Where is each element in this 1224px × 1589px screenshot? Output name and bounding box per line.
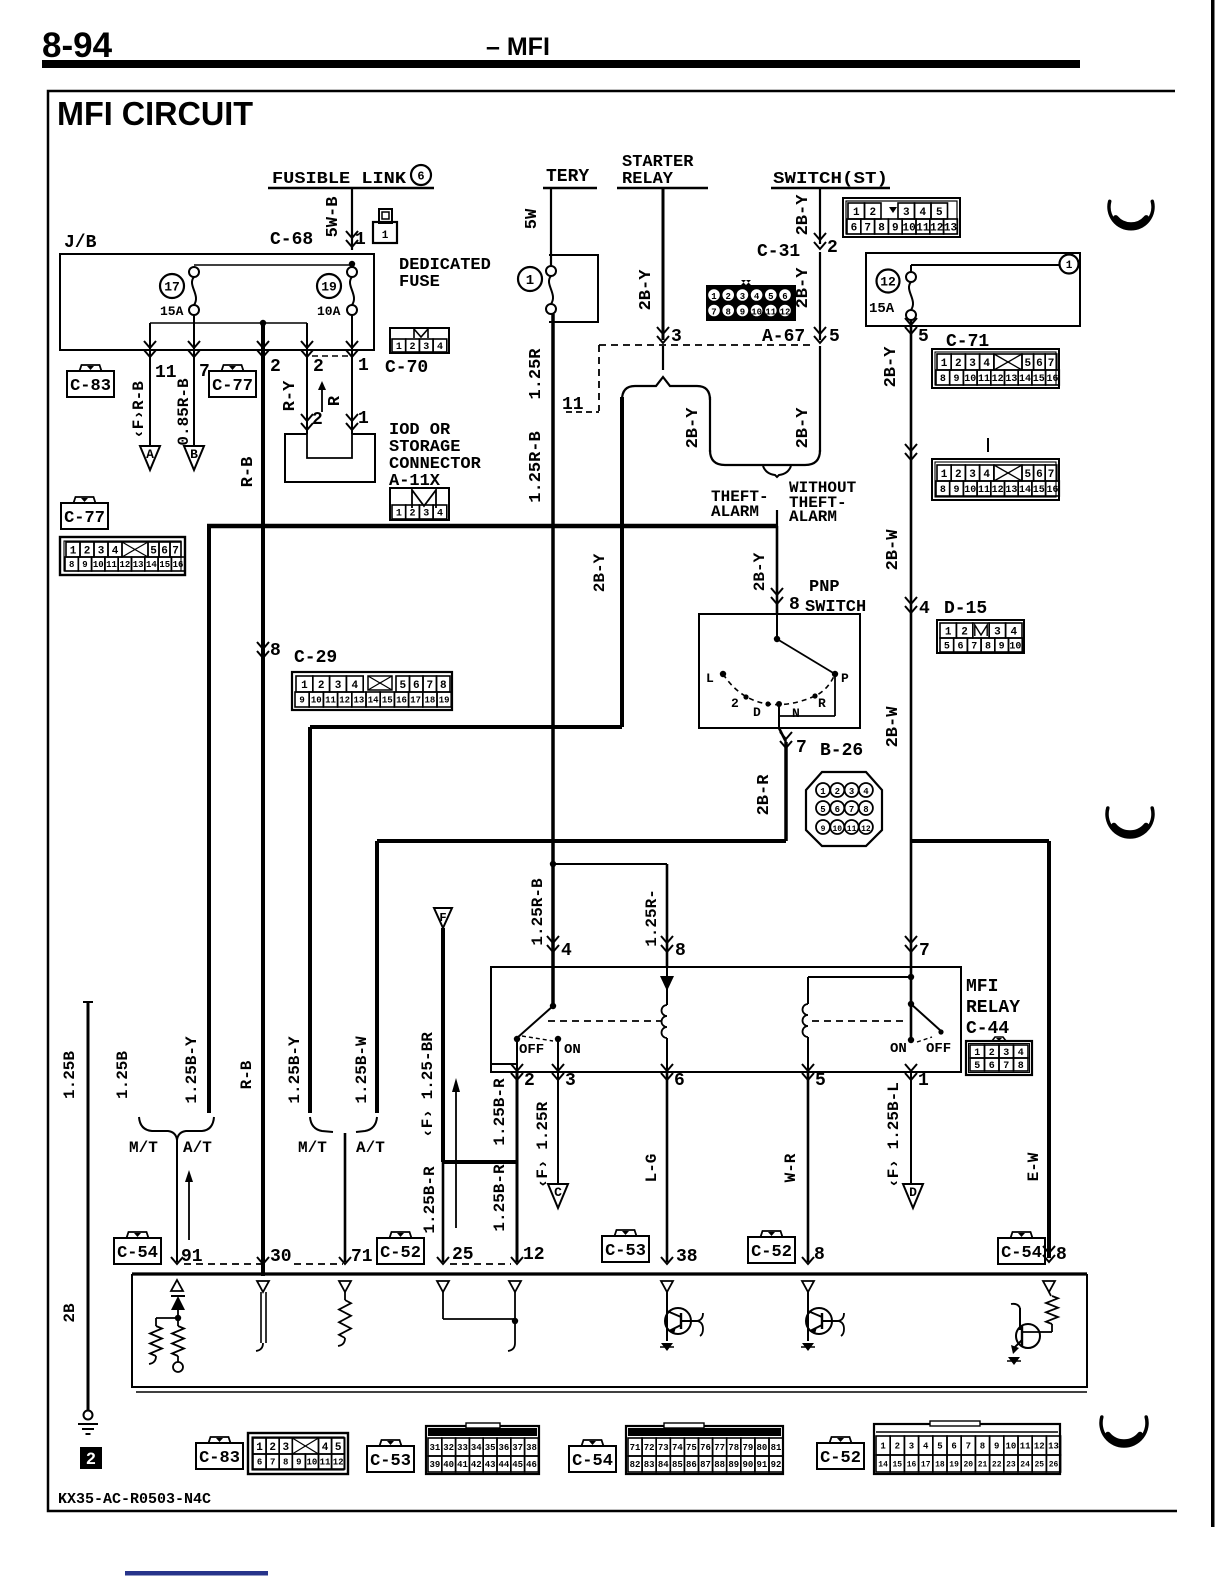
wire 1.25R below fuse [551, 314, 555, 526]
svg-text:MFI: MFI [966, 977, 998, 997]
svg-text:A: A [146, 447, 154, 462]
svg-text:7: 7 [864, 222, 871, 234]
svg-text:A-67: A-67 [762, 327, 805, 347]
connector C-52 label bottom [817, 1443, 864, 1469]
svg-text:77: 77 [714, 1443, 725, 1453]
wire 2B-Y below fuse12 [910, 320, 913, 968]
svg-text:35: 35 [485, 1443, 496, 1453]
svg-text:15: 15 [382, 696, 393, 706]
relay coil1 diode [660, 976, 674, 991]
svg-text:6: 6 [257, 1458, 262, 1468]
arrow 2 out [511, 1073, 523, 1080]
svg-text:5: 5 [399, 680, 406, 692]
relay sw2 wire [910, 968, 913, 1040]
pnp entry wire [776, 614, 778, 639]
wire 5W-B from fusible link [351, 189, 353, 250]
svg-text:C-70: C-70 [385, 358, 428, 378]
svg-text:11: 11 [916, 222, 930, 234]
thick bus wire y841 [377, 839, 786, 843]
svg-text:2: 2 [731, 696, 739, 711]
wire out6 lower [666, 1072, 669, 1262]
svg-text:2B-Y: 2B-Y [794, 407, 813, 449]
svg-text:9: 9 [821, 825, 826, 834]
sensor circle pin91 [177, 1356, 179, 1362]
page marker 2 [80, 1447, 102, 1469]
svg-text:14: 14 [1019, 374, 1031, 385]
svg-text:8: 8 [725, 308, 730, 318]
svg-text:2: 2 [313, 357, 324, 377]
svg-text:15A: 15A [869, 301, 895, 317]
arrow 1 out [905, 1073, 917, 1080]
svg-text:C-53: C-53 [605, 1242, 646, 1261]
svg-text:C: C [554, 1185, 562, 1200]
PNP switch box [699, 614, 860, 728]
svg-text:3: 3 [969, 469, 976, 481]
svg-text:4: 4 [351, 680, 358, 692]
ground symbol [84, 1411, 93, 1420]
svg-text:E-W: E-W [1025, 1152, 1043, 1181]
bracket bottom curve [710, 450, 820, 465]
circled 6 fusible link [411, 165, 431, 185]
svg-text:2B-Y: 2B-Y [591, 553, 609, 592]
svg-text:10: 10 [964, 485, 976, 496]
wire out1 lower [910, 1072, 912, 1183]
svg-text:C-52: C-52 [820, 1449, 861, 1468]
pin 91 chevron [171, 1257, 183, 1264]
svg-text:– MFI: – MFI [486, 33, 550, 61]
arrow mid on 2B-W wire [905, 453, 917, 460]
wire 2B-R to B-26 [779, 728, 786, 742]
svg-text:11: 11 [1020, 1442, 1031, 1452]
svg-text:‹F› 1.25R: ‹F› 1.25R [534, 1101, 552, 1188]
svg-text:30: 30 [270, 1247, 292, 1267]
svg-text:11: 11 [847, 825, 857, 834]
relay sw2 dashed [917, 1037, 932, 1042]
svg-text:0.85R-B: 0.85R-B [175, 378, 193, 446]
svg-text:82: 82 [630, 1460, 641, 1470]
svg-text:KX35-AC-R0503-N4C: KX35-AC-R0503-N4C [58, 1491, 211, 1508]
svg-text:8: 8 [940, 485, 946, 496]
svg-text:5: 5 [829, 327, 840, 347]
svg-text:25: 25 [452, 1245, 474, 1265]
jb arrows [144, 350, 156, 357]
fuse 19 circled [317, 274, 341, 298]
svg-text:2B-Y: 2B-Y [684, 407, 703, 449]
svg-text:10: 10 [751, 308, 762, 318]
svg-text:D: D [753, 705, 761, 720]
svg-text:9: 9 [299, 696, 304, 706]
svg-text:22: 22 [992, 1460, 1002, 1469]
svg-text:1.25R-B: 1.25R-B [529, 878, 547, 946]
connector C-83 label box [67, 371, 114, 397]
svg-text:10: 10 [307, 1458, 318, 1468]
battery tap to coil [553, 863, 667, 865]
svg-text:38: 38 [526, 1443, 537, 1453]
svg-text:14: 14 [878, 1460, 888, 1469]
svg-text:4: 4 [754, 292, 760, 302]
arrow 5 out [802, 1073, 814, 1080]
svg-text:37: 37 [512, 1443, 523, 1453]
ground Q3 [1008, 1357, 1020, 1365]
svg-text:2: 2 [269, 1442, 276, 1454]
svg-text:1.25B-R: 1.25B-R [491, 1164, 509, 1232]
page right edge scan line [1211, 0, 1215, 1527]
wire 5W battery [550, 189, 552, 266]
wire out2 lower [516, 1072, 519, 1262]
connector B-26 hexagonal [806, 772, 882, 846]
arrow 8 EW [1043, 1255, 1055, 1262]
wire 1.25B-Y second drop [308, 727, 312, 1113]
svg-text:7: 7 [971, 642, 977, 653]
arrow up annotation 1 [188, 1180, 190, 1240]
svg-text:2B-Y: 2B-Y [751, 552, 769, 591]
svg-text:20: 20 [963, 1460, 973, 1469]
svg-text:1: 1 [396, 509, 402, 520]
svg-text:14: 14 [146, 560, 157, 570]
svg-text:C-68: C-68 [270, 230, 313, 250]
svg-text:12: 12 [333, 1458, 344, 1468]
svg-text:83: 83 [644, 1460, 655, 1470]
arrow 3 on starter wire [657, 336, 669, 343]
svg-text:1.25B-R: 1.25B-R [491, 1078, 509, 1146]
svg-text:7: 7 [849, 805, 854, 815]
svg-text:B: B [190, 447, 198, 462]
svg-text:5: 5 [974, 1061, 980, 1072]
svg-text:74: 74 [672, 1443, 683, 1453]
transistor Q3 [1051, 1324, 1053, 1332]
svg-text:RELAY: RELAY [622, 170, 674, 189]
svg-text:9: 9 [296, 1458, 301, 1468]
stub pin12 [514, 1292, 516, 1343]
svg-text:46: 46 [526, 1460, 537, 1470]
svg-text:10: 10 [964, 374, 976, 385]
svg-text:1.25B-Y: 1.25B-Y [183, 1036, 201, 1104]
svg-text:ALARM: ALARM [789, 508, 837, 526]
svg-text:6: 6 [851, 222, 858, 234]
svg-text:13: 13 [944, 222, 958, 234]
svg-text:84: 84 [658, 1460, 669, 1470]
svg-text:7: 7 [796, 738, 807, 758]
dot lower bus [260, 320, 266, 326]
wire jb out 2 thick R-B [261, 323, 265, 1276]
wire jb out 11 [149, 323, 151, 365]
svg-text:1.25B-Y: 1.25B-Y [286, 1036, 304, 1104]
svg-text:A/T: A/T [356, 1139, 385, 1157]
svg-text:2: 2 [725, 292, 730, 302]
svg-text:2: 2 [312, 410, 323, 430]
svg-text:7: 7 [426, 680, 433, 692]
svg-text:ON: ON [890, 1041, 907, 1057]
svg-text:2B-Y: 2B-Y [637, 269, 656, 311]
svg-text:2B-Y: 2B-Y [794, 267, 813, 309]
pnp dashed arc [723, 674, 835, 705]
svg-text:5: 5 [150, 545, 157, 557]
svg-text:11: 11 [978, 374, 990, 385]
svg-text:1: 1 [853, 207, 860, 219]
svg-text:12: 12 [861, 825, 871, 834]
punch hole artifact 2 [1107, 808, 1153, 837]
svg-text:4: 4 [863, 787, 869, 797]
starter split bracket [622, 377, 710, 400]
ground Q1 [661, 1343, 673, 1351]
dashed between iod pins [312, 355, 349, 357]
svg-text:76: 76 [700, 1443, 711, 1453]
pin 38 entry triangle [661, 1281, 673, 1292]
svg-text:18: 18 [935, 1460, 945, 1469]
svg-text:2: 2 [524, 1071, 535, 1091]
arrow 4 to D-15 [905, 606, 917, 613]
fuse 19 element [347, 267, 357, 277]
svg-text:23: 23 [1006, 1460, 1016, 1469]
svg-text:9: 9 [954, 374, 960, 385]
pin 71 chevron [339, 1257, 351, 1264]
svg-text:4: 4 [919, 599, 930, 619]
svg-text:3: 3 [909, 1442, 914, 1452]
connector C-52 label box [377, 1238, 424, 1264]
relay coil1 [662, 1005, 668, 1038]
svg-text:D-15: D-15 [944, 599, 987, 619]
resistor pair link [156, 1317, 178, 1319]
pnp P dot [832, 671, 838, 677]
dedicated fuse box [549, 255, 598, 322]
svg-text:10: 10 [1009, 642, 1021, 653]
horizontal to PNP [310, 725, 622, 729]
wire 2B-W tee corner [911, 839, 1049, 843]
svg-text:R-B: R-B [239, 457, 258, 488]
svg-text:11: 11 [562, 395, 584, 415]
svg-text:31: 31 [429, 1443, 440, 1453]
pin 8 EW entry triangle [1043, 1281, 1055, 1292]
svg-text:71: 71 [351, 1247, 373, 1267]
svg-text:17: 17 [164, 280, 180, 295]
svg-text:R-Y: R-Y [281, 380, 300, 411]
svg-text:9: 9 [999, 642, 1005, 653]
svg-text:16: 16 [173, 560, 184, 570]
svg-text:5: 5 [335, 1442, 342, 1454]
pin 12 chevron [511, 1257, 523, 1264]
connector C-29 [292, 672, 452, 710]
svg-text:1.25R-: 1.25R- [643, 889, 661, 947]
svg-text:7: 7 [270, 1458, 275, 1468]
pin 38 chevron [661, 1257, 673, 1264]
svg-text:6: 6 [674, 1071, 685, 1091]
svg-text:5: 5 [820, 805, 825, 815]
svg-text:8: 8 [940, 374, 946, 385]
svg-text:41: 41 [457, 1460, 468, 1470]
svg-text:6: 6 [951, 1442, 956, 1452]
svg-text:2: 2 [955, 469, 962, 481]
connector C-54 bottom [626, 1426, 783, 1474]
connector C-53 bottom [426, 1426, 539, 1474]
svg-text:1.25B-R: 1.25B-R [421, 1166, 439, 1234]
diode pin91 [171, 1296, 185, 1310]
svg-text:12: 12 [780, 308, 791, 318]
mech dashed link 2 [812, 1020, 905, 1022]
svg-text:1: 1 [382, 230, 389, 242]
dot C-68 feed [349, 261, 355, 267]
connector C-53 label bottom [367, 1446, 414, 1472]
svg-text:10: 10 [902, 222, 915, 234]
wire 1.25B-Y left drop [207, 524, 211, 1113]
svg-text:3: 3 [969, 358, 976, 370]
svg-text:10: 10 [1005, 1442, 1016, 1452]
svg-text:9: 9 [82, 560, 87, 570]
svg-text:5: 5 [815, 1071, 826, 1091]
svg-text:1: 1 [1066, 260, 1073, 272]
svg-text:M/T: M/T [129, 1139, 158, 1157]
svg-text:8: 8 [985, 642, 991, 653]
dashed A-67 line [599, 344, 814, 346]
arrow 5 below fuse box [905, 327, 917, 334]
ECM box [132, 1272, 1087, 1275]
relay out2 wire [516, 1039, 518, 1072]
pin 25 entry triangle [437, 1281, 449, 1292]
svg-text:4: 4 [112, 545, 119, 557]
pin 91 entry triangle [171, 1280, 183, 1291]
connector C-83 bottom [248, 1433, 348, 1474]
svg-text:L-G: L-G [643, 1154, 661, 1183]
svg-text:73: 73 [658, 1443, 669, 1453]
svg-text:24: 24 [1020, 1460, 1030, 1469]
svg-text:J/B: J/B [64, 233, 97, 253]
svg-text:TERY: TERY [546, 167, 589, 187]
svg-text:C-52: C-52 [751, 1243, 792, 1262]
svg-text:8: 8 [878, 222, 885, 234]
svg-text:8: 8 [69, 560, 74, 570]
punch hole artifact 3 [1101, 1417, 1147, 1446]
svg-text:1.25B: 1.25B [61, 1051, 79, 1099]
relay sw2 arm [911, 1004, 941, 1031]
svg-text:18: 18 [424, 696, 435, 706]
junction block J/B box [60, 254, 374, 350]
svg-text:21: 21 [978, 1460, 988, 1469]
svg-text:40: 40 [443, 1460, 454, 1470]
connector C-70 [390, 328, 449, 353]
svg-text:91: 91 [757, 1460, 768, 1470]
bottom blue mark [125, 1571, 268, 1576]
svg-text:19: 19 [439, 696, 450, 706]
svg-text:ALARM: ALARM [711, 503, 759, 521]
svg-text:W-R: W-R [782, 1153, 800, 1182]
svg-text:92: 92 [771, 1460, 782, 1470]
arrow 5 on switch wire [814, 336, 826, 343]
svg-text:5: 5 [768, 292, 773, 302]
svg-text:N: N [792, 706, 800, 721]
connector below C-71 16pin [932, 459, 1059, 500]
resistor pin71 [344, 1292, 346, 1300]
svg-text:FUSIBLE LINK: FUSIBLE LINK [272, 170, 407, 189]
svg-text:3: 3 [282, 1442, 289, 1454]
svg-text:1: 1 [918, 1071, 929, 1091]
link 25 to 12 [442, 1292, 444, 1319]
svg-text:79: 79 [742, 1443, 753, 1453]
svg-text:1.25B: 1.25B [114, 1051, 132, 1099]
svg-text:SWITCH(ST): SWITCH(ST) [773, 170, 888, 189]
svg-text:3: 3 [423, 342, 429, 353]
svg-text:86: 86 [686, 1460, 697, 1470]
svg-text:6: 6 [782, 292, 787, 302]
svg-text:7: 7 [966, 1442, 971, 1452]
svg-text:1: 1 [880, 1442, 886, 1452]
svg-text:3: 3 [423, 509, 429, 520]
svg-text:80: 80 [757, 1443, 768, 1453]
svg-text:3: 3 [98, 545, 105, 557]
svg-text:10: 10 [93, 560, 104, 570]
circled 12 fuse [877, 270, 900, 293]
svg-text:6: 6 [835, 805, 840, 815]
relay sw1 off dot [514, 1036, 520, 1042]
arrow into J/B [346, 240, 358, 247]
merged wire MT2 [344, 1133, 347, 1262]
svg-text:6: 6 [1036, 358, 1043, 370]
svg-text:1: 1 [256, 1442, 263, 1454]
ignition fuse box [866, 253, 1080, 326]
mechanical dashed link [548, 1020, 662, 1022]
triangle F source [434, 908, 452, 928]
svg-text:C-44: C-44 [966, 1019, 1009, 1039]
svg-text:11: 11 [325, 696, 336, 706]
svg-text:C-83: C-83 [70, 377, 111, 396]
relay coil2 wire upper [807, 977, 809, 1004]
pin 30 chevron [257, 1257, 269, 1264]
svg-text:4: 4 [561, 941, 572, 961]
svg-text:13: 13 [1005, 374, 1017, 385]
svg-text:R: R [818, 696, 826, 711]
svg-text:1: 1 [358, 409, 369, 429]
relay sw1 wire [551, 526, 555, 1006]
relay coil1 wire lower [666, 1038, 668, 1072]
svg-text:5: 5 [936, 207, 943, 219]
svg-text:3: 3 [849, 787, 854, 797]
svg-text:C-77: C-77 [64, 509, 105, 528]
svg-text:10: 10 [311, 696, 322, 706]
svg-text:6: 6 [417, 169, 424, 183]
svg-text:34: 34 [471, 1443, 482, 1453]
arrow 2 on switch wire [814, 242, 826, 249]
svg-text:38: 38 [676, 1247, 698, 1267]
relay sw1 dashed link [522, 1036, 553, 1041]
svg-text:9: 9 [994, 1442, 999, 1452]
svg-text:15: 15 [892, 1460, 902, 1469]
svg-text:R: R [326, 395, 345, 406]
svg-text:FUSE: FUSE [399, 273, 440, 292]
arrow 7 b26 [780, 741, 792, 748]
svg-text:17: 17 [921, 1460, 931, 1469]
MFI relay box [491, 967, 961, 1072]
dashed harness 91-30 [184, 1263, 261, 1265]
arrow 8 pnp [771, 597, 783, 604]
svg-text:8: 8 [789, 595, 800, 615]
svg-text:2: 2 [84, 545, 91, 557]
underbrace without theft alarm [763, 466, 791, 477]
relay sw2 on dot [908, 1037, 914, 1043]
svg-text:C-54: C-54 [572, 1452, 613, 1471]
svg-text:12: 12 [992, 485, 1004, 496]
pnp moving contact [777, 639, 835, 674]
relay coil2 top link [808, 976, 911, 978]
svg-text:2: 2 [86, 1449, 95, 1468]
svg-text:C-29: C-29 [294, 648, 337, 668]
svg-text:10: 10 [832, 825, 842, 834]
svg-text:2: 2 [410, 509, 416, 520]
connector C-77 label box [61, 503, 108, 529]
svg-text:13: 13 [133, 560, 144, 570]
svg-text:2: 2 [955, 358, 962, 370]
connector C-54 label right [998, 1238, 1045, 1264]
wire 1.25B ground [87, 1002, 90, 1410]
svg-text:1: 1 [70, 545, 77, 557]
relay out3 wire [557, 1039, 559, 1072]
